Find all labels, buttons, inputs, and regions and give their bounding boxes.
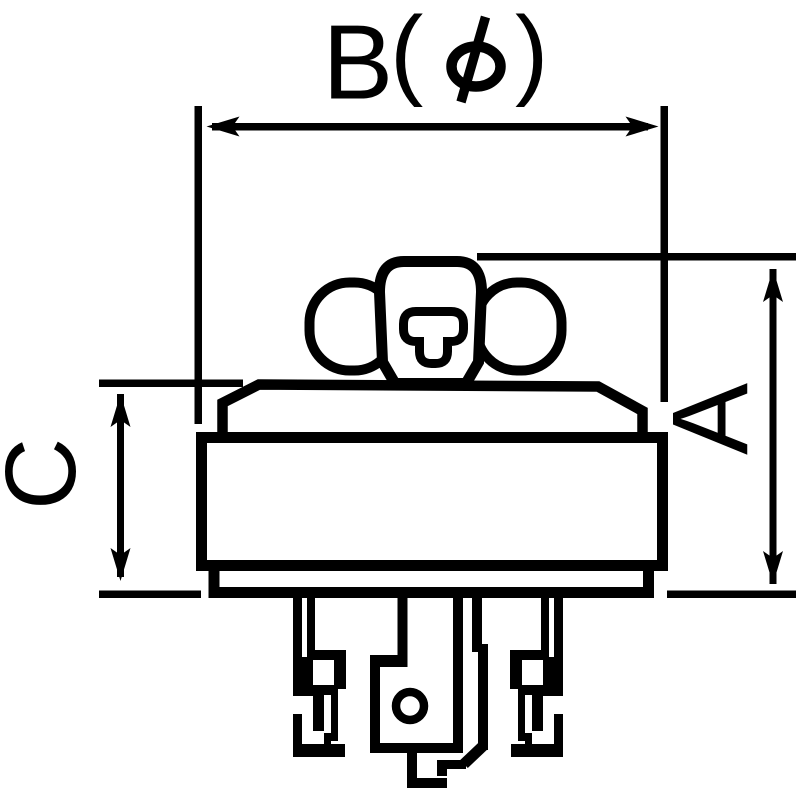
- bent terminal diagonal foot: [464, 746, 483, 764]
- svg-text:(: (: [390, 0, 423, 108]
- B right extension line: [661, 106, 669, 402]
- svg-text:A: A: [649, 383, 770, 455]
- C dimension line: [117, 394, 124, 577]
- C bottom arrowhead: [111, 548, 131, 581]
- A top extension line: [477, 253, 796, 261]
- B right arrowhead: [626, 117, 659, 137]
- rivet hole in middle pin: [396, 692, 424, 720]
- B dimension line: [212, 123, 648, 131]
- left pin: [293, 588, 346, 757]
- label phi ellipse: [452, 47, 501, 87]
- svg-text:): ): [515, 0, 548, 108]
- A top arrowhead: [763, 269, 783, 302]
- label phi slash: [461, 17, 486, 102]
- A dimension line: [770, 269, 777, 584]
- svg-text:C: C: [0, 438, 97, 510]
- keyhole slot in knob: [404, 312, 464, 364]
- C top arrowhead: [111, 394, 131, 427]
- A bottom arrowhead: [763, 551, 783, 584]
- cap (top lid of body): [223, 385, 643, 442]
- main body: [202, 438, 663, 566]
- svg-text:B: B: [323, 4, 394, 122]
- bent center terminal: [472, 588, 488, 750]
- right pin: [510, 588, 563, 757]
- base flange: [214, 565, 649, 593]
- middle pin: [370, 588, 463, 753]
- right ear of top knob: [477, 283, 562, 371]
- C top extension line: [99, 380, 243, 388]
- knob head: [380, 262, 482, 384]
- bottom tab of middle pin: [407, 753, 466, 788]
- B left arrowhead: [207, 117, 240, 137]
- B left extension line: [195, 106, 203, 424]
- left ear of top knob: [310, 283, 395, 371]
- A bottom extension line: [667, 591, 796, 599]
- C bottom extension line: [99, 591, 201, 599]
